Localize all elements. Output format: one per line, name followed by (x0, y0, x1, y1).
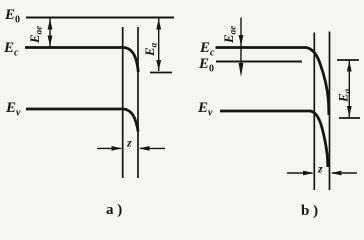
E0 vacuum level line (fig b) (216, 61, 302, 63)
surface region vertical line left (fig b) (313, 33, 315, 191)
svg-text:z: z (317, 162, 323, 176)
Ec conduction band line with downward surface bend (fig a) (25, 48, 138, 73)
Ev valence band line with downward surface bend (fig a) (26, 109, 138, 132)
surface region vertical line left (fig a) (122, 27, 124, 178)
Ea bottom reference tick (fig a) (150, 72, 172, 74)
Ea double arrow (fig b) (347, 61, 352, 118)
svg-text:a ): a ) (106, 202, 122, 218)
surface region vertical line right (fig b) (329, 32, 331, 191)
Eae arrow with two down arrowheads (fig b) (239, 18, 244, 78)
Ea top reference tick (fig b) (337, 59, 359, 61)
Ev valence band line with steep surface dip (fig b) (220, 111, 328, 167)
Ea bottom reference tick (fig b) (339, 117, 360, 119)
E0 vacuum level line (fig a) (26, 17, 174, 19)
z width arrow right (fig b) (331, 171, 357, 176)
Ec conduction band line with steep surface dip (fig b) (216, 48, 329, 116)
surface region vertical line right (fig a) (137, 27, 139, 178)
z width arrow right (fig a) (139, 146, 165, 151)
z width arrow left (fig b) (287, 171, 314, 176)
z width arrow left (fig a) (97, 146, 122, 151)
svg-text:z: z (126, 136, 132, 150)
Eae double arrow (fig a) (48, 19, 53, 47)
Ea double arrow (fig a) (156, 19, 161, 72)
svg-text:b ): b ) (301, 203, 318, 219)
